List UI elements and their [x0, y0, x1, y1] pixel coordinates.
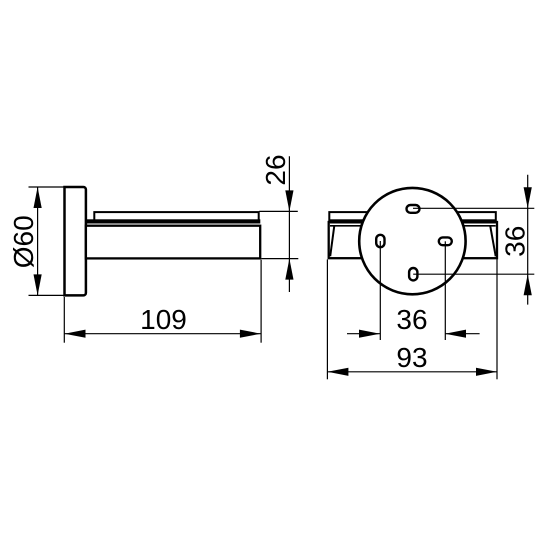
svg-text:109: 109 — [140, 304, 187, 335]
arm body (side view) — [86, 226, 260, 259]
svg-text:36: 36 — [499, 226, 530, 257]
arrow 26 bottom — [285, 259, 293, 280]
mounting hole left — [376, 235, 384, 247]
extension line 93 right — [496, 259, 498, 380]
extension line diameter bottom — [29, 294, 65, 296]
dimension line 26 — [288, 156, 290, 292]
top plate (front view) — [329, 212, 496, 221]
dimension line 109 — [65, 333, 261, 335]
wall rosette circle (front view) — [359, 188, 465, 294]
shelf body (front view) — [329, 222, 497, 258]
arrow Ø60 top — [34, 187, 42, 208]
arrow 36 bottom left — [359, 330, 380, 338]
svg-text:36: 36 — [396, 304, 427, 335]
svg-text:26: 26 — [260, 154, 291, 185]
arrow 36 bottom right — [445, 330, 466, 338]
thick shelf edge (front view) — [330, 219, 496, 223]
shelf inner top edge (front view) — [330, 225, 496, 227]
arrow Ø60 bottom — [34, 274, 42, 295]
dimension line 36 bottom right segment — [445, 333, 480, 335]
dimension line Ø60 — [37, 187, 39, 295]
extension line diameter top — [29, 186, 65, 188]
wall plate (side view) — [65, 187, 86, 295]
top plate (side view) — [94, 212, 258, 221]
extension line 36 right-top (shares leader) — [527, 175, 529, 305]
extension line 109 right — [260, 260, 262, 343]
dimension line 93 — [327, 371, 497, 373]
thick shelf edge (side view) — [86, 219, 260, 223]
shelf right end slant (front view) — [490, 226, 495, 256]
arrow 36 vertical top — [524, 187, 532, 208]
arrow 109 left — [65, 330, 86, 338]
shelf left end slant (front view) — [330, 226, 334, 256]
extension line 26 bottom — [261, 258, 298, 260]
mounting hole right — [439, 237, 452, 245]
leader line from top hole — [413, 207, 534, 209]
leader line from bottom hole — [413, 273, 534, 275]
arrow 93 right — [476, 368, 497, 376]
leader line from left hole — [379, 241, 381, 340]
mounting hole top — [407, 205, 420, 213]
svg-text:93: 93 — [396, 342, 427, 373]
extension line 93 left — [326, 259, 328, 379]
svg-text:Ø60: Ø60 — [8, 215, 39, 268]
leader line from right hole — [444, 241, 446, 340]
dimension line 36 bottom left segment — [347, 333, 380, 335]
arrow 109 right — [240, 330, 261, 338]
extension line 26 top — [259, 210, 298, 212]
arrow 36 vertical bottom — [524, 274, 532, 295]
extension line 109 left — [63, 297, 65, 343]
mounting hole bottom — [409, 268, 417, 280]
arrow 93 left — [327, 368, 348, 376]
arrow 26 top — [285, 190, 293, 211]
